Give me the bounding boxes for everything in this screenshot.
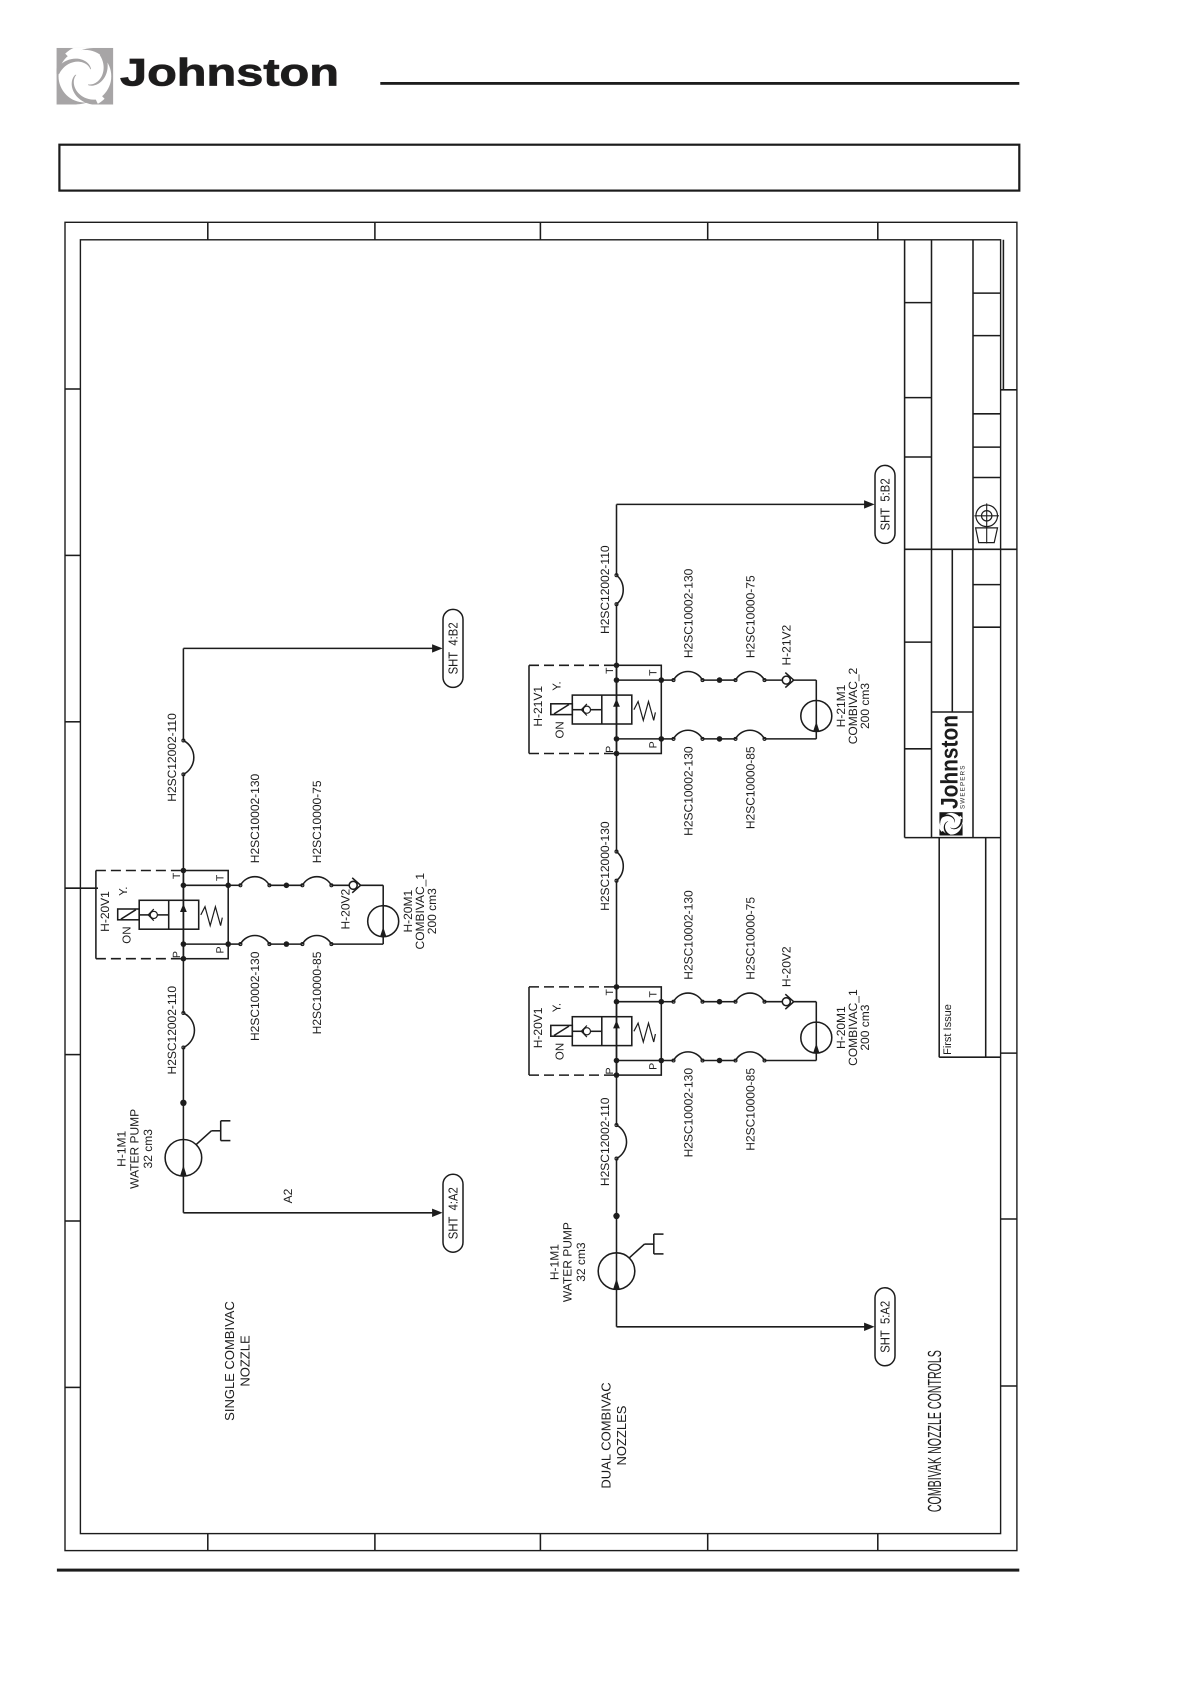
svg-text:SHT 5:A2: SHT 5:A2: [877, 1301, 892, 1353]
svg-text:Y.: Y.: [551, 1003, 563, 1012]
svg-text:WATER PUMP: WATER PUMP: [561, 1222, 575, 1302]
water pump H-1M1 (circuit 1): [114, 1109, 230, 1189]
hose H2SC12002-110 (pump side, circuit 1): [165, 986, 194, 1075]
hose H2SC12002-110 (pump side, circuit 2): [598, 1097, 626, 1186]
svg-text:H2SC10000-85: H2SC10000-85: [743, 1068, 757, 1151]
svg-text:H-1M1: H-1M1: [548, 1244, 562, 1280]
wire to SHT 5:A2: [617, 1323, 875, 1331]
svg-text:32 cm3: 32 cm3: [141, 1129, 155, 1169]
wire to SHT 4:A2: [183, 1188, 442, 1217]
wire T chain (valve H-21V1 c2): [661, 671, 816, 687]
svg-text:H2SC10002-130: H2SC10002-130: [681, 746, 695, 836]
svg-text:H-21V1: H-21V1: [531, 686, 545, 727]
svg-text:P: P: [171, 951, 183, 958]
wire to SHT 4:B2: [183, 644, 442, 652]
svg-text:H2SC10000-85: H2SC10000-85: [743, 746, 757, 829]
hose H2SC12000-130 (middle, circuit 2): [598, 821, 623, 911]
wire to SHT 5:B2: [617, 500, 875, 508]
svg-text:P: P: [648, 741, 660, 748]
svg-text:P: P: [604, 746, 616, 753]
header box: [59, 145, 1019, 191]
hose H2SC12002-110 (right, circuit 2): [598, 545, 623, 634]
svg-text:SHT 5:B2: SHT 5:B2: [877, 478, 892, 530]
off-sheet connector SHT 5:A2: [875, 1288, 895, 1366]
wire chain corners to motor (valve A c2): [815, 1002, 817, 1061]
junction: [180, 1100, 186, 1106]
svg-text:32 cm3: 32 cm3: [574, 1242, 588, 1282]
wire chain corners to motor (c1): [382, 885, 384, 944]
svg-text:T: T: [648, 991, 660, 998]
svg-text:H2SC10002-130: H2SC10002-130: [248, 773, 262, 863]
svg-text:H2SC10002-130: H2SC10002-130: [681, 568, 695, 658]
svg-text:SHT 4:B2: SHT 4:B2: [445, 622, 460, 674]
solenoid wire to frame: [65, 887, 98, 889]
svg-text:WATER PUMP: WATER PUMP: [127, 1109, 141, 1189]
border zone ticks: [65, 222, 1017, 1550]
svg-text:First Issue: First Issue: [942, 1004, 954, 1055]
svg-text:H-20V2: H-20V2: [780, 946, 794, 987]
junction: [613, 1213, 619, 1219]
sheet outer border: [65, 222, 1017, 1550]
svg-text:A2: A2: [281, 1188, 295, 1203]
svg-text:ON: ON: [555, 1043, 567, 1060]
motor H-21M1 COMBIVAC_2: [801, 667, 872, 744]
svg-text:DUAL COMBIVAC: DUAL COMBIVAC: [598, 1382, 613, 1488]
svg-text:H2SC10000-75: H2SC10000-75: [743, 575, 757, 658]
wire T chain circuit 1: [228, 877, 383, 893]
wire chain corners to motor (valve B c2): [815, 680, 817, 739]
svg-text:H-1M1: H-1M1: [114, 1130, 128, 1166]
svg-text:COMBIVAK NOZZLE CONTROLS: COMBIVAK NOZZLE CONTROLS: [925, 1350, 946, 1512]
svg-text:NOZZLE: NOZZLE: [237, 1335, 252, 1387]
Johnston logo mark (header): [54, 37, 114, 116]
svg-text:ON: ON: [555, 721, 567, 738]
water pump H-1M1 (circuit 2): [548, 1222, 664, 1302]
footer rule: [57, 1569, 1019, 1572]
wire P chain (valve H-21V1 c2): [661, 730, 816, 741]
header rule: [380, 82, 1019, 85]
solenoid valve H-20V1 (circuit 2): [529, 984, 664, 1078]
wire bus circuit 2: [616, 504, 618, 1326]
svg-text:H2SC10002-130: H2SC10002-130: [681, 1068, 695, 1158]
title block grid: [905, 240, 1017, 1057]
svg-text:H-20V1: H-20V1: [98, 891, 112, 932]
svg-text:T: T: [604, 989, 616, 996]
svg-text:P: P: [648, 1063, 660, 1070]
svg-text:H2SC12002-110: H2SC12002-110: [165, 713, 179, 802]
hose H2SC12002-110 (valve side, circuit 1): [165, 713, 194, 802]
svg-text:H2SC12002-110: H2SC12002-110: [598, 545, 612, 634]
svg-text:Y.: Y.: [118, 887, 130, 896]
off-sheet connector SHT 5:B2: [875, 465, 895, 543]
svg-text:H-21V2: H-21V2: [780, 624, 794, 665]
svg-text:200 cm3: 200 cm3: [858, 683, 872, 729]
solenoid valve H-21V1 (circuit 2): [529, 663, 664, 757]
svg-text:T: T: [648, 669, 660, 676]
off-sheet connector SHT 4:B2: [443, 609, 463, 687]
svg-text:H2SC10002-130: H2SC10002-130: [681, 890, 695, 980]
svg-text:P: P: [215, 946, 227, 953]
svg-text:SHT 4:A2: SHT 4:A2: [445, 1187, 460, 1239]
svg-text:200 cm3: 200 cm3: [425, 888, 439, 934]
solenoid valve H-20V1 (circuit 1): [96, 868, 231, 962]
svg-text:T: T: [171, 872, 183, 879]
svg-text:T: T: [215, 874, 227, 881]
sheet inner border: [80, 240, 1000, 1534]
svg-text:NOZZLES: NOZZLES: [614, 1405, 629, 1465]
svg-text:H2SC12000-130: H2SC12000-130: [598, 821, 612, 911]
svg-text:H2SC10000-75: H2SC10000-75: [743, 897, 757, 980]
motor H-20M1 COMBIVAC_1 (circuit 2): [801, 989, 872, 1066]
svg-text:P: P: [604, 1067, 616, 1074]
first-angle projection symbol: [974, 503, 999, 543]
off-sheet connector SHT 4:A2: [443, 1174, 463, 1252]
motor H-20M1 COMBIVAC_1 (circuit 1): [368, 873, 439, 950]
svg-text:SWEEPERS: SWEEPERS: [960, 765, 967, 810]
svg-text:H2SC12002-110: H2SC12002-110: [598, 1097, 612, 1186]
svg-text:H2SC10000-85: H2SC10000-85: [310, 951, 324, 1034]
svg-text:ON: ON: [121, 926, 133, 943]
wire P chain circuit 1: [228, 935, 383, 946]
svg-text:T: T: [604, 667, 616, 674]
svg-text:Y.: Y.: [551, 681, 563, 690]
svg-text:H-20V2: H-20V2: [339, 888, 353, 929]
svg-text:H2SC10002-130: H2SC10002-130: [248, 951, 262, 1041]
wire T chain (valve H-20V1 c2): [661, 993, 816, 1009]
svg-text:SINGLE COMBIVAC: SINGLE COMBIVAC: [222, 1301, 237, 1421]
svg-text:H-20V1: H-20V1: [531, 1007, 545, 1048]
svg-text:Johnston: Johnston: [120, 52, 339, 95]
svg-text:H2SC10000-75: H2SC10000-75: [310, 780, 324, 863]
svg-text:H2SC12002-110: H2SC12002-110: [165, 986, 179, 1075]
Johnston logo (title block): [935, 715, 967, 837]
wire P chain (valve H-20V1 c2): [661, 1052, 816, 1063]
wire bus circuit 1: [182, 648, 184, 1212]
svg-text:200 cm3: 200 cm3: [858, 1004, 872, 1050]
